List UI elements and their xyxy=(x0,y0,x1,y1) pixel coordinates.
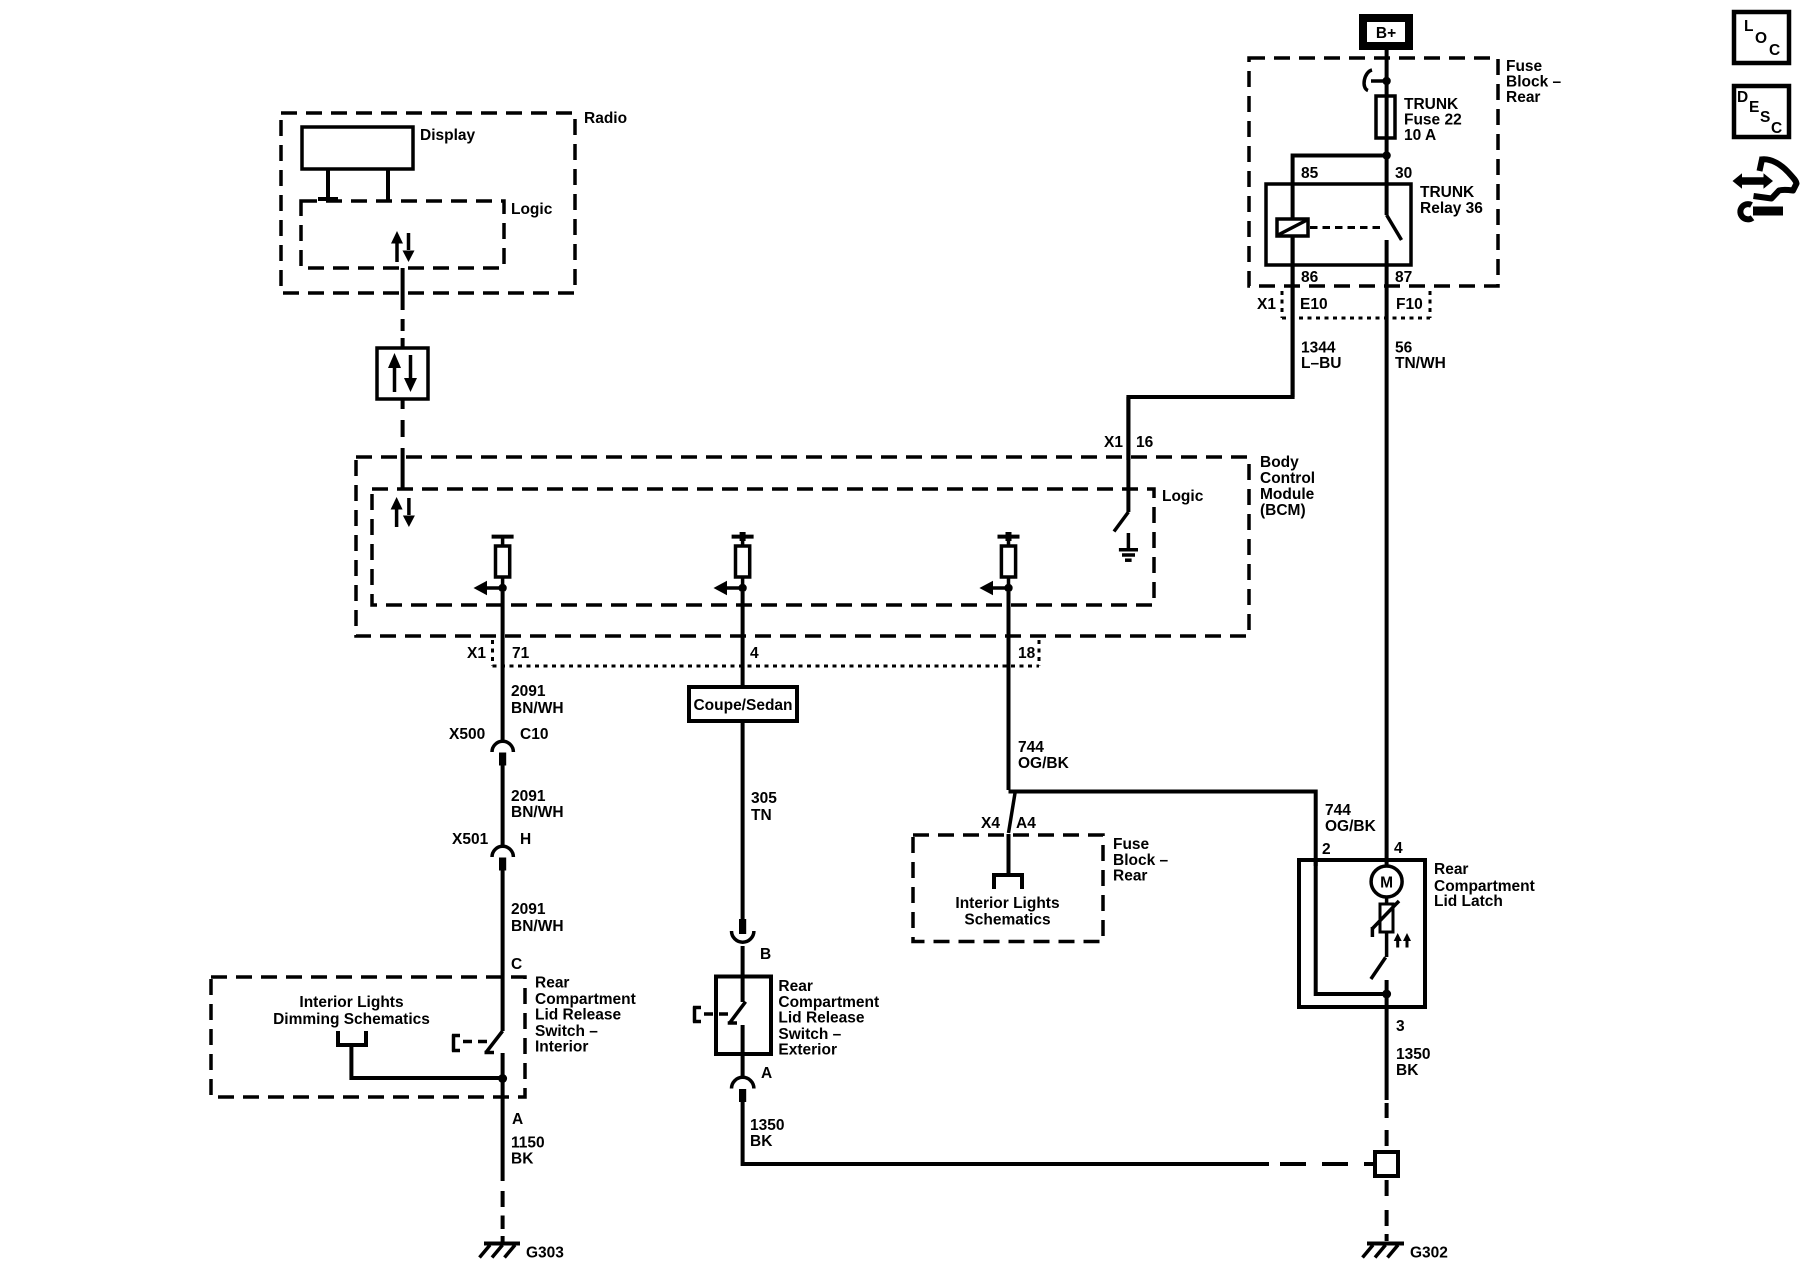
svg-text:E: E xyxy=(1749,99,1759,116)
svg-text:S: S xyxy=(1760,109,1770,126)
relay actuation dashed link xyxy=(1310,226,1382,229)
svg-text:F10: F10 xyxy=(1396,296,1423,313)
wire serial data gateway to BCM (dashed) xyxy=(401,399,405,489)
svg-text:1344: 1344 xyxy=(1301,340,1336,357)
svg-text:Logic: Logic xyxy=(511,201,553,218)
splice xyxy=(1375,1152,1398,1176)
wire display leg left xyxy=(318,169,338,201)
svg-text:Rear: Rear xyxy=(1113,868,1147,885)
wire 1150 BK dashed to ground xyxy=(501,1191,505,1242)
wire 2091 BN/WH segment 1 xyxy=(503,592,564,741)
BCM input switch pin X1-16 xyxy=(1114,397,1128,532)
svg-text:X1: X1 xyxy=(1257,296,1276,313)
relay coil xyxy=(1277,219,1308,236)
wire relay coil pin 86 to E10 xyxy=(1291,236,1295,397)
wire branch to relay coil pin 85 xyxy=(1293,156,1387,220)
svg-text:Fuse: Fuse xyxy=(1506,58,1543,75)
wire 1350 BK dashed to splice xyxy=(1280,1162,1375,1166)
rear compartment lid release switch - interior xyxy=(452,975,636,1056)
svg-text:30: 30 xyxy=(1395,165,1412,182)
svg-text:BN/WH: BN/WH xyxy=(511,918,564,935)
latch position arrows xyxy=(1394,933,1411,948)
fuse TRUNK Fuse 22 10A xyxy=(1376,96,1462,144)
svg-text:Relay 36: Relay 36 xyxy=(1420,200,1483,217)
battery feed B+ xyxy=(1363,18,1409,46)
wire 1350 BK latch label xyxy=(1396,1046,1430,1079)
svg-text:2091: 2091 xyxy=(511,901,546,918)
svg-text:BK: BK xyxy=(1396,1062,1419,1079)
wire 56 TN/WH run to latch pin 4 xyxy=(1385,318,1389,866)
latch switch blade xyxy=(1371,957,1386,979)
wire 56 TN/WH label xyxy=(1395,340,1446,373)
wire 1350 BK dashed to splice (vertical) xyxy=(1385,1103,1389,1146)
fuse block rear box (top) xyxy=(1249,58,1562,286)
svg-text:X501: X501 xyxy=(452,831,489,848)
wire 1350 BK exterior run xyxy=(743,1102,1269,1164)
serial data gateway box with up/down arrows xyxy=(377,348,428,399)
svg-text:Fuse 22: Fuse 22 xyxy=(1404,112,1462,129)
svg-text:X1: X1 xyxy=(1104,434,1123,451)
svg-text:56: 56 xyxy=(1395,340,1413,357)
svg-text:305: 305 xyxy=(751,790,777,807)
svg-text:Block –: Block – xyxy=(1506,74,1562,91)
svg-text:C10: C10 xyxy=(520,726,548,743)
svg-text:3: 3 xyxy=(1396,1018,1405,1035)
wire 1344 L-BU label xyxy=(1301,340,1341,373)
junction node fuse output xyxy=(1382,151,1390,159)
interior lights schematics connection bracket xyxy=(992,875,1024,889)
wire switch to pin A xyxy=(501,1053,505,1181)
svg-text:Rear: Rear xyxy=(1506,89,1540,106)
svg-text:BN/WH: BN/WH xyxy=(511,700,564,717)
svg-text:16: 16 xyxy=(1136,434,1154,451)
junction node at interior switch xyxy=(498,1074,507,1083)
BCM logic box xyxy=(372,488,1204,605)
BCM output driver pin 18 xyxy=(979,532,1019,595)
svg-text:BK: BK xyxy=(511,1151,534,1168)
serial data arrows (BCM logic) xyxy=(391,497,415,527)
in-line connector X500 pin C10 xyxy=(449,726,548,766)
wire 2091 BN/WH segment 3 xyxy=(503,871,564,1032)
wire 305 TN xyxy=(743,721,778,919)
svg-text:B: B xyxy=(760,946,771,963)
svg-text:71: 71 xyxy=(512,645,530,662)
rear compartment lid release switch - exterior xyxy=(693,977,879,1059)
svg-text:2091: 2091 xyxy=(511,683,546,700)
svg-text:TN: TN xyxy=(751,807,772,824)
interior lights dimming schematics box xyxy=(211,977,525,1097)
svg-text:A: A xyxy=(512,1111,523,1128)
wire display leg right xyxy=(386,169,390,201)
legend repair icon xyxy=(1733,157,1797,219)
coupe/sedan option tag xyxy=(689,687,797,721)
svg-text:BN/WH: BN/WH xyxy=(511,804,564,821)
svg-text:X4: X4 xyxy=(981,815,1000,832)
svg-text:2091: 2091 xyxy=(511,788,546,805)
wire fuse to relay node xyxy=(1385,138,1389,215)
BCM output driver pin 4 xyxy=(714,532,754,595)
svg-text:TRUNK: TRUNK xyxy=(1404,96,1459,113)
svg-text:(BCM): (BCM) xyxy=(1260,502,1306,519)
svg-text:G302: G302 xyxy=(1410,1245,1448,1262)
svg-text:Lid Latch: Lid Latch xyxy=(1434,893,1503,910)
fuse block feed terminal hook xyxy=(1364,70,1391,91)
svg-text:OG/BK: OG/BK xyxy=(1018,755,1070,772)
svg-text:85: 85 xyxy=(1301,165,1319,182)
svg-text:Dimming Schematics: Dimming Schematics xyxy=(273,1011,430,1028)
svg-text:H: H xyxy=(520,831,531,848)
svg-text:TRUNK: TRUNK xyxy=(1420,184,1475,201)
svg-text:Rear: Rear xyxy=(778,978,812,995)
latch actuator (rect with diagonal) xyxy=(1372,901,1399,937)
svg-text:Display: Display xyxy=(420,127,476,144)
wire motor to actuator xyxy=(1385,897,1389,904)
svg-text:2: 2 xyxy=(1322,841,1331,858)
wire 1150 BK label xyxy=(511,1135,545,1168)
interior lights schematics label xyxy=(955,895,1059,929)
wire BCM pin 4 to coupe/sedan tag xyxy=(741,592,745,687)
in-line connector pin B xyxy=(732,919,772,963)
svg-text:D: D xyxy=(1737,89,1748,106)
svg-text:L–BU: L–BU xyxy=(1301,355,1341,372)
svg-text:Radio: Radio xyxy=(584,110,627,127)
legend LOC button xyxy=(1734,12,1789,63)
svg-text:Schematics: Schematics xyxy=(964,912,1050,929)
svg-text:Lid Release: Lid Release xyxy=(535,1007,622,1024)
svg-text:A: A xyxy=(761,1065,772,1082)
svg-text:10 A: 10 A xyxy=(1404,127,1436,144)
svg-text:Rear: Rear xyxy=(1434,861,1468,878)
wire splice to ground dashed xyxy=(1385,1180,1389,1241)
latch motor M xyxy=(1371,866,1402,897)
fuse block rear box (interior lights) xyxy=(913,835,1169,942)
svg-text:Block –: Block – xyxy=(1113,852,1169,869)
svg-text:1350: 1350 xyxy=(1396,1046,1430,1063)
svg-text:744: 744 xyxy=(1325,802,1351,819)
wire 744 OG/BK branch to latch pin 2 xyxy=(1009,792,1377,867)
svg-text:X500: X500 xyxy=(449,726,485,743)
svg-text:M: M xyxy=(1380,875,1393,892)
junction node latch common xyxy=(1382,990,1391,999)
svg-text:Control: Control xyxy=(1260,470,1315,487)
wire actuator to switch xyxy=(1385,932,1389,957)
wire dimming feed to switch node xyxy=(351,1045,502,1078)
svg-text:E10: E10 xyxy=(1300,296,1328,313)
svg-text:Coupe/Sedan: Coupe/Sedan xyxy=(693,697,792,714)
relay switch blade pin 30 to 87 xyxy=(1387,215,1402,318)
svg-text:Exterior: Exterior xyxy=(778,1042,837,1059)
BCM connector X1 strip xyxy=(467,640,1039,666)
svg-text:87: 87 xyxy=(1395,269,1412,286)
svg-text:Lid Release: Lid Release xyxy=(778,1010,865,1027)
svg-text:1350: 1350 xyxy=(750,1117,784,1134)
rear compartment lid latch box xyxy=(1299,860,1535,1007)
wire latch common to pin 3 xyxy=(1385,980,1389,1100)
svg-text:86: 86 xyxy=(1301,269,1319,286)
wire 2091 BN/WH segment 2 xyxy=(503,766,564,847)
BCM output driver pin 71 xyxy=(474,532,514,595)
svg-text:X1: X1 xyxy=(467,645,486,662)
wire switch lower contact to pin A xyxy=(741,1025,745,1077)
BCM internal ground xyxy=(1119,533,1138,560)
dimming schematics connection bracket xyxy=(336,1031,368,1045)
svg-text:C: C xyxy=(511,956,522,973)
legend DESC button xyxy=(1734,86,1789,137)
serial data arrows (radio logic) xyxy=(391,231,415,262)
wire B to exterior switch xyxy=(741,946,745,1002)
svg-text:Interior: Interior xyxy=(535,1039,588,1056)
svg-text:Switch –: Switch – xyxy=(778,1026,841,1043)
svg-text:18: 18 xyxy=(1018,645,1036,662)
relay TRUNK Relay 36 xyxy=(1266,184,1483,265)
svg-text:4: 4 xyxy=(1394,840,1403,857)
ground G302 xyxy=(1363,1244,1448,1262)
svg-text:4: 4 xyxy=(750,645,759,662)
in-line connector X501 pin H xyxy=(452,831,531,871)
svg-text:Logic: Logic xyxy=(1162,488,1204,505)
svg-text:Switch –: Switch – xyxy=(535,1023,598,1040)
wire 744 OG/BK from BCM pin 18 xyxy=(1009,592,1070,790)
svg-text:O: O xyxy=(1755,30,1767,47)
wire B+ to fuse xyxy=(1385,50,1389,96)
svg-text:Compartment: Compartment xyxy=(778,994,879,1011)
svg-text:Interior Lights: Interior Lights xyxy=(299,994,403,1011)
wire latch pin 2 internal loop xyxy=(1316,860,1387,994)
node X1 16 labels xyxy=(1104,434,1154,451)
svg-text:OG/BK: OG/BK xyxy=(1325,818,1377,835)
svg-text:744: 744 xyxy=(1018,739,1044,756)
svg-text:1150: 1150 xyxy=(511,1135,545,1152)
svg-text:BK: BK xyxy=(750,1133,773,1150)
wire serial data radio to gateway (dashed) xyxy=(401,268,405,348)
radio logic box xyxy=(301,201,553,268)
in-line connector below exterior switch xyxy=(732,1077,754,1102)
svg-text:TN/WH: TN/WH xyxy=(1395,355,1446,372)
body control module (BCM) outer box xyxy=(356,454,1315,636)
ground G303 xyxy=(480,1244,565,1262)
svg-text:Interior Lights: Interior Lights xyxy=(955,895,1059,912)
radio assembly box xyxy=(281,110,627,293)
connector X4 pin A4 pass-through xyxy=(981,790,1036,873)
display (radio display) xyxy=(302,127,476,169)
wire 1344 L-BU run to BCM X1-16 xyxy=(1128,236,1292,460)
svg-text:A4: A4 xyxy=(1016,815,1036,832)
svg-text:Rear: Rear xyxy=(535,975,569,992)
svg-text:G303: G303 xyxy=(526,1245,564,1262)
svg-text:C: C xyxy=(1771,120,1782,137)
svg-text:C: C xyxy=(1769,42,1780,59)
svg-text:L: L xyxy=(1744,18,1753,35)
svg-text:Module: Module xyxy=(1260,486,1315,503)
svg-text:Compartment: Compartment xyxy=(535,991,636,1008)
connector X1 strip E10 F10 xyxy=(1257,291,1430,318)
svg-text:Body: Body xyxy=(1260,454,1299,471)
svg-text:Fuse: Fuse xyxy=(1113,836,1150,853)
svg-text:B+: B+ xyxy=(1376,25,1396,42)
